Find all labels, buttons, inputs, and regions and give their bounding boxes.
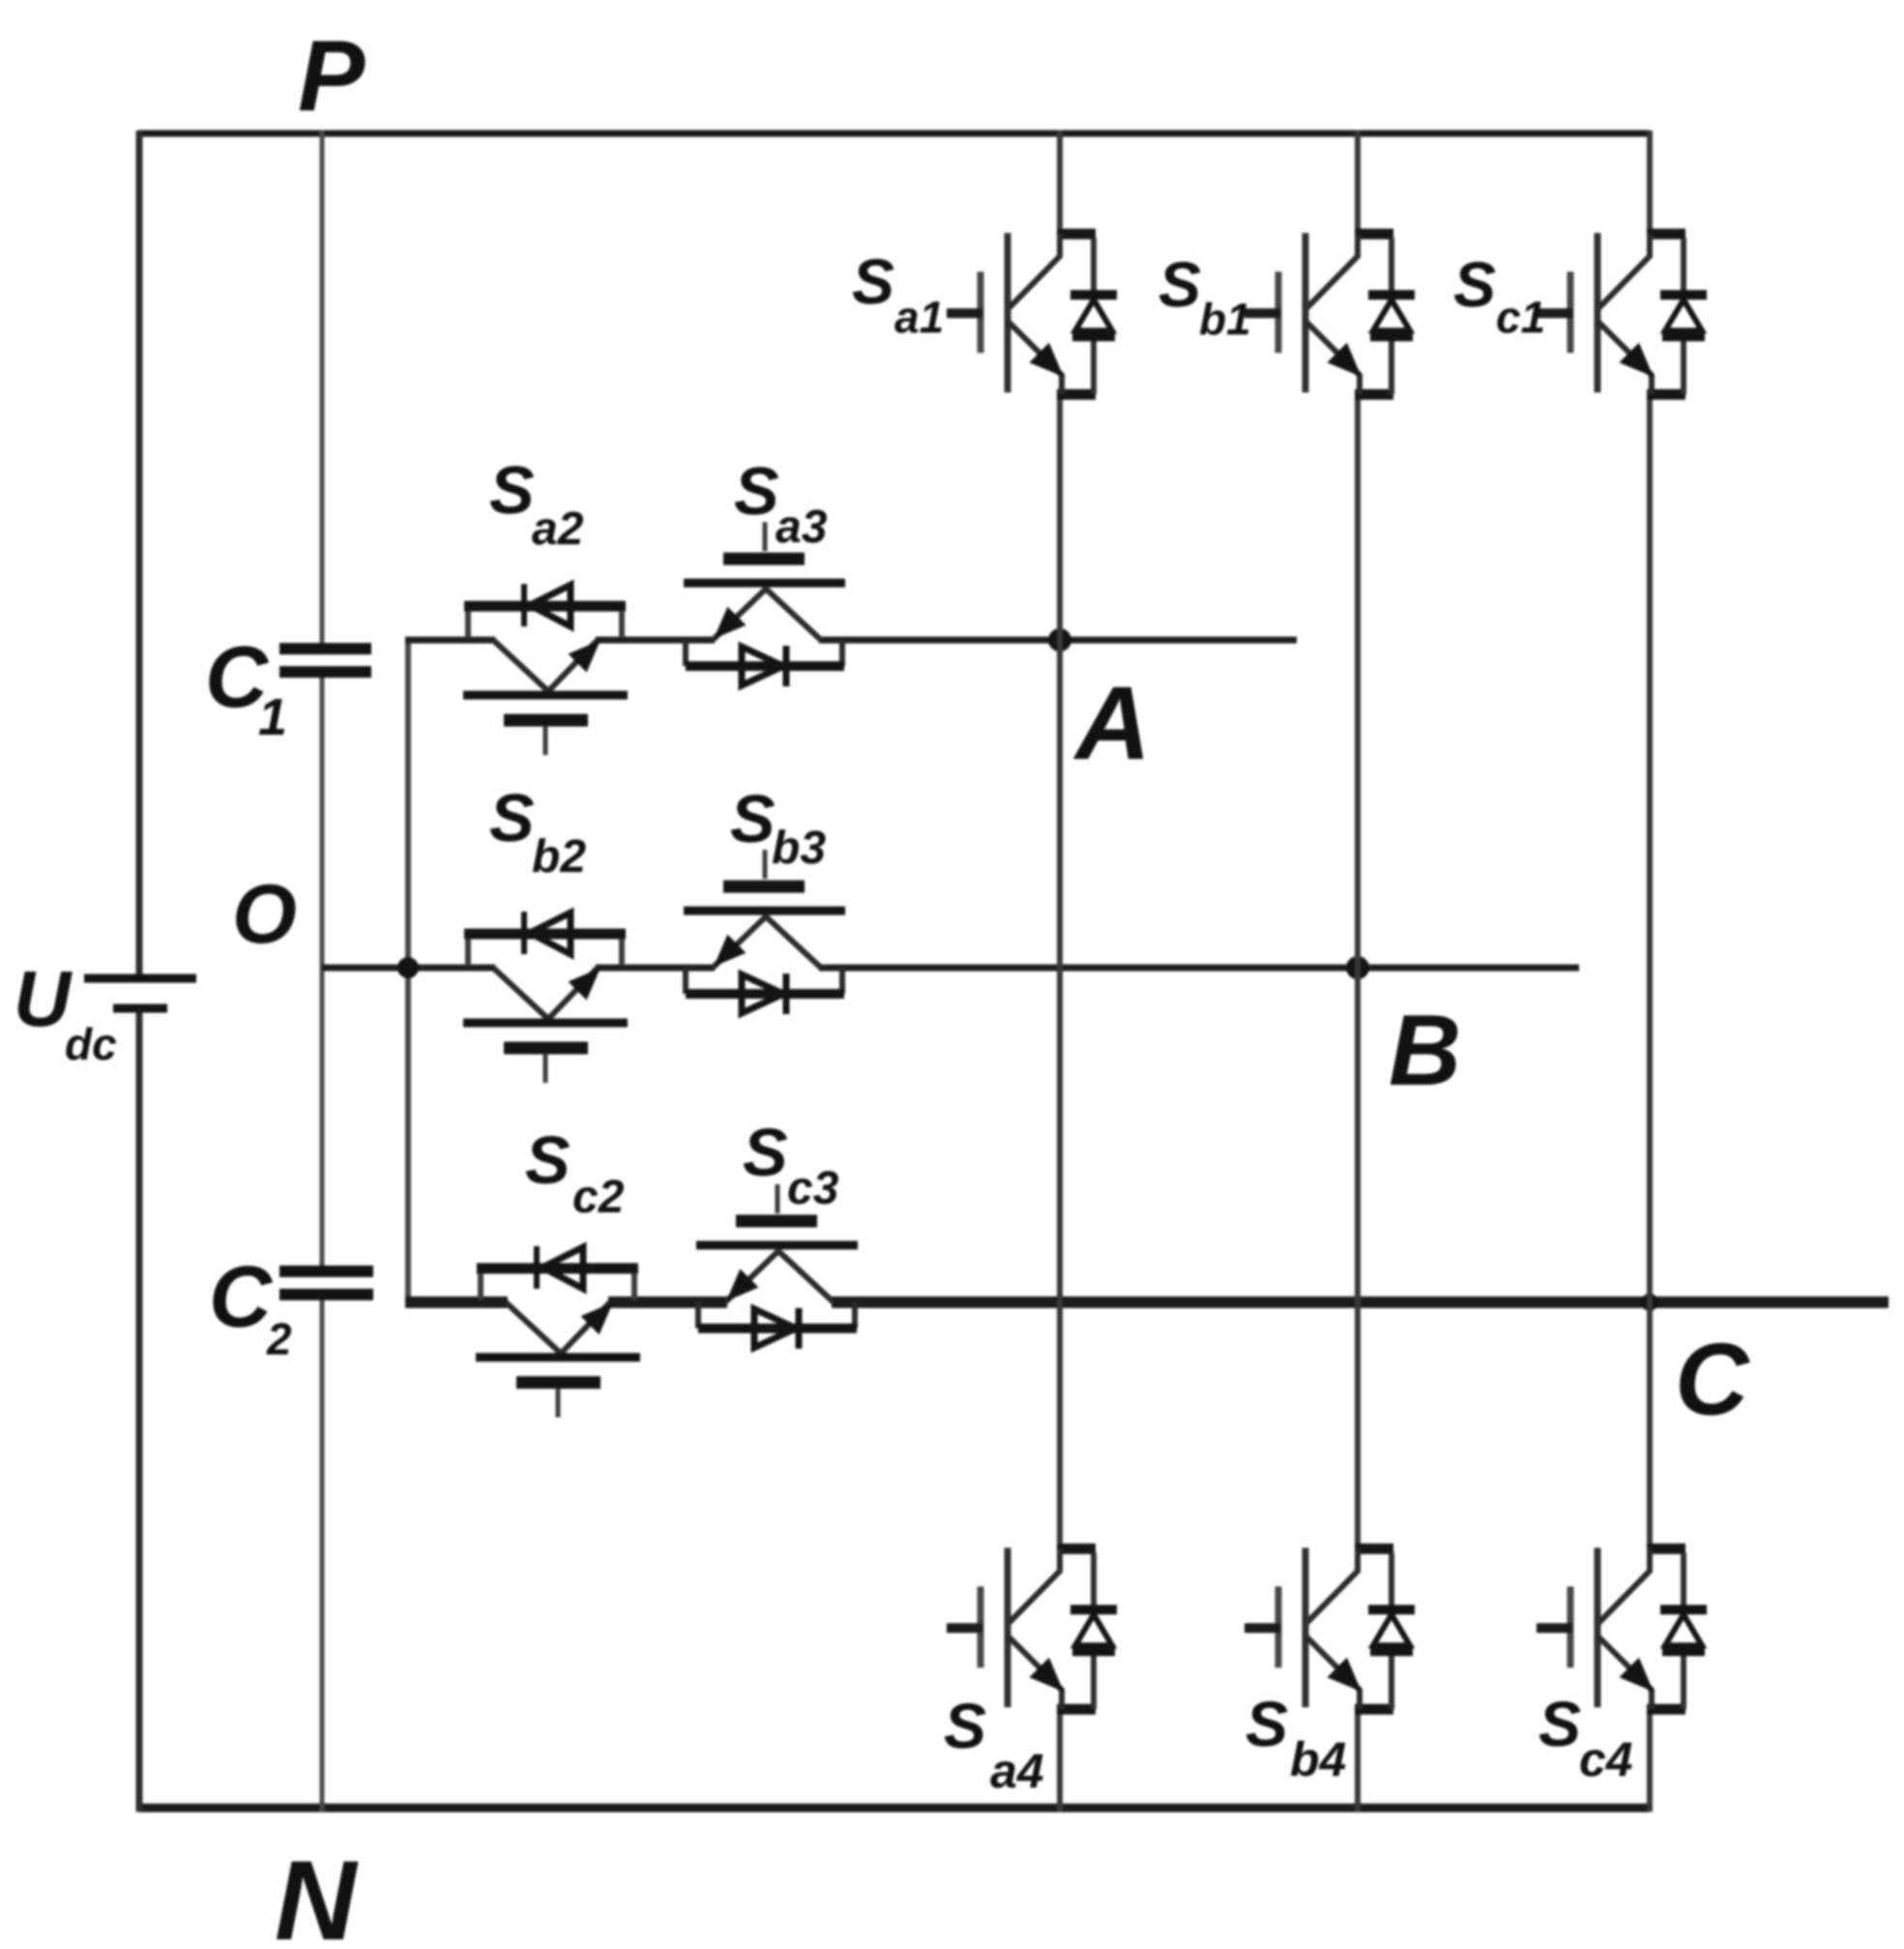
node A junction dot [1048,628,1071,652]
svg-text:S: S [525,1122,571,1198]
svg-text:S: S [489,452,535,528]
svg-text:C: C [209,1249,274,1346]
capacitor C2 top plate [279,1265,373,1277]
wire row B right segment to phase leg B [819,965,1579,972]
transistor Sc3 reverse-blocking IGBT [696,1184,858,1349]
svg-text:S: S [730,781,776,857]
svg-text:S: S [1453,248,1496,320]
svg-text:S: S [1538,1688,1581,1760]
svg-text:C: C [1675,1323,1750,1437]
wire N rail [138,1804,1650,1813]
transistor Sa1 IGBT with antiparallel diode [947,233,1117,394]
wire row A right segment to phase leg A [819,637,1297,644]
svg-text:S: S [944,1690,986,1761]
svg-text:S: S [734,453,779,529]
svg-text:N: N [275,1837,359,1949]
wire phase leg C upper [1647,131,1653,235]
svg-text:B: B [1389,995,1461,1107]
wire capacitor branch lower [320,1299,325,1812]
svg-text:a3: a3 [776,502,828,553]
svg-text:b1: b1 [1199,294,1251,344]
transistor Sa2 reverse-blocking IGBT [463,584,628,755]
wire row C right segment to phase output C [832,1296,1889,1308]
transistor Sb1 IGBT with antiparallel diode [1245,233,1415,394]
wire capacitor branch middle [320,677,325,1266]
wire left DC bus vertical upper [136,131,143,974]
svg-text:1: 1 [258,688,287,746]
capacitor C1 top plate [279,643,371,655]
svg-text:S: S [489,780,535,856]
svg-text:A: A [1072,664,1151,781]
transistor Sa4 IGBT with antiparallel diode [947,1548,1117,1709]
battery Udc negative plate [113,1004,167,1013]
svg-text:b3: b3 [772,823,826,874]
transistor Sa3 reverse-blocking IGBT [684,522,845,686]
transistor Sb3 reverse-blocking IGBT [684,850,845,1014]
svg-text:a1: a1 [894,292,944,342]
svg-text:S: S [852,246,894,317]
svg-text:c3: c3 [787,1163,839,1214]
node B junction dot [1346,956,1369,979]
svg-text:S: S [1158,248,1201,320]
svg-text:O: O [232,868,297,961]
capacitor C2 bottom plate [279,1289,373,1300]
battery Udc positive plate [84,974,196,983]
wire P rail [138,131,1650,137]
node O junction dot [397,957,419,978]
svg-text:c4: c4 [1579,1732,1633,1787]
wire phase leg A middle [1057,393,1063,1550]
wire row C middle segment [608,1296,727,1308]
wire phase leg A lower [1057,1708,1063,1812]
transistor Sc4 IGBT with antiparallel diode [1537,1548,1707,1709]
svg-text:2: 2 [266,1314,292,1364]
node C junction dot [1641,1294,1658,1311]
transistor Sb4 IGBT with antiparallel diode [1245,1548,1415,1709]
svg-text:b2: b2 [532,831,586,883]
wire phase leg A upper [1057,131,1063,235]
svg-text:S: S [1245,1688,1288,1760]
wire row B middle segment [596,965,715,972]
svg-text:b4: b4 [1290,1732,1346,1787]
wire left DC bus vertical lower [136,1012,143,1812]
svg-text:S: S [743,1115,788,1190]
wire clamp-branch vertical connecting three bidirectional switch rows [405,640,411,1302]
svg-text:a2: a2 [532,504,584,555]
transistor Sc1 IGBT with antiparallel diode [1537,233,1707,394]
wire row A left segment [405,637,495,644]
capacitor C1 bottom plate [279,666,371,678]
wire phase leg C lower [1647,1708,1653,1812]
svg-text:dc: dc [65,1019,117,1069]
svg-text:P: P [298,20,366,132]
wire row A middle segment [596,637,715,644]
svg-text:c1: c1 [1496,292,1545,342]
svg-text:c2: c2 [572,1172,625,1223]
svg-text:a4: a4 [990,1744,1044,1798]
wire phase leg C middle [1647,393,1653,1550]
wire phase leg B upper [1355,131,1361,235]
transistor Sc2 reverse-blocking IGBT [476,1246,640,1417]
wire phase leg B middle [1355,393,1361,1550]
wire phase leg B lower [1355,1708,1361,1812]
wire capacitor branch upper [320,131,325,644]
wire row B left segment from O node [322,965,495,972]
transistor Sb2 reverse-blocking IGBT [463,912,628,1083]
svg-text:U: U [14,955,73,1043]
wire row C left segment [405,1296,508,1308]
